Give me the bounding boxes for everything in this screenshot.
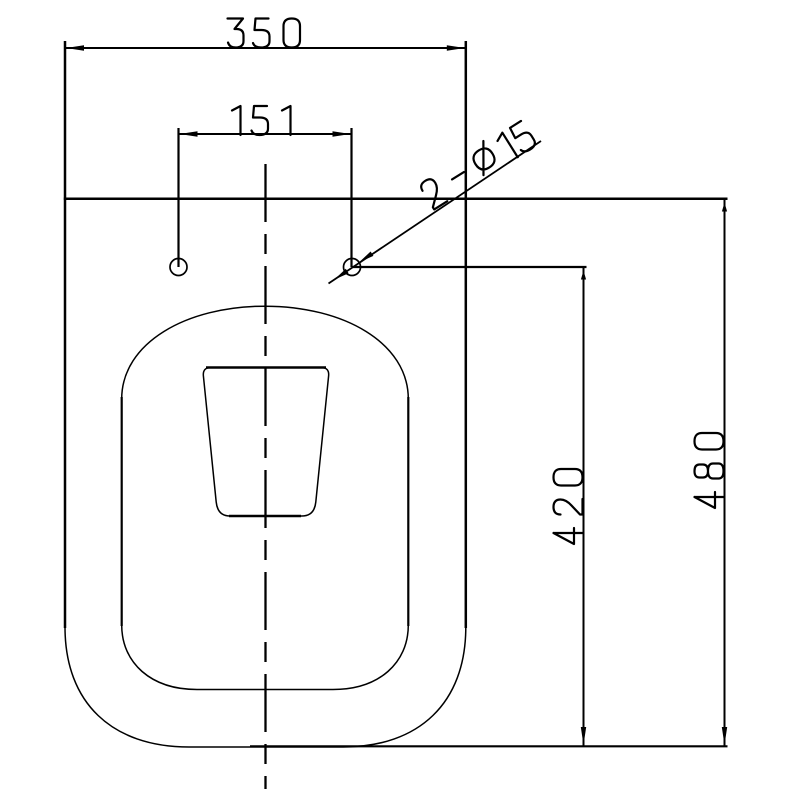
pan left side (with extension up to 350 dim) [64,41,67,628]
flush well top edge (thick) [206,366,326,368]
dim 480 line [724,199,726,746]
dim 151 left arrow [180,131,198,136]
flush well bottom edge (thick) [229,515,301,517]
dim 151 left extension line down to hole [177,128,179,267]
pan top edge with extension line to 480 dim [64,197,728,200]
flush well outline (tapered) [203,368,328,517]
dim 350 line [65,47,466,49]
seat opening dome top [122,306,409,399]
dim 350 text [228,19,301,48]
seat opening bottom [122,625,409,690]
dim 151 line [179,133,352,135]
seat opening right side [407,397,409,626]
dim 350 right arrow [447,45,465,50]
dim 420 bottom arrow [581,727,586,745]
fixing hole right [344,259,361,276]
dim 420 line [583,267,585,746]
fixing hole left [170,259,187,276]
dim 350 left arrow [66,45,84,50]
vertical centerline (dash-dot) [264,164,266,789]
seat opening left side [121,397,123,626]
extension line from right hole to 420 dim [352,266,587,268]
dim 480 top arrow [722,203,727,212]
pan right side (with extension up to 350 dim) [465,41,468,628]
dim 480 text (rotated) [695,433,724,508]
dim 420 top arrow [581,271,586,280]
dim 480 bottom arrow [722,727,727,745]
dim 151 right extension line down to hole [350,128,352,267]
dim 420 text (rotated) [554,469,583,544]
dim 151 right arrow [333,131,351,136]
leader line for 2-O15 [329,141,542,284]
pan bottom rounded outline [65,627,466,747]
bottom extension line from pan bottom to 480 dim [250,745,728,747]
leader arrow at end [334,269,348,280]
dim 151 text [232,106,291,135]
leader text 2-O15 (rotated) [417,118,537,210]
leader arrow at hole edge [359,252,373,263]
